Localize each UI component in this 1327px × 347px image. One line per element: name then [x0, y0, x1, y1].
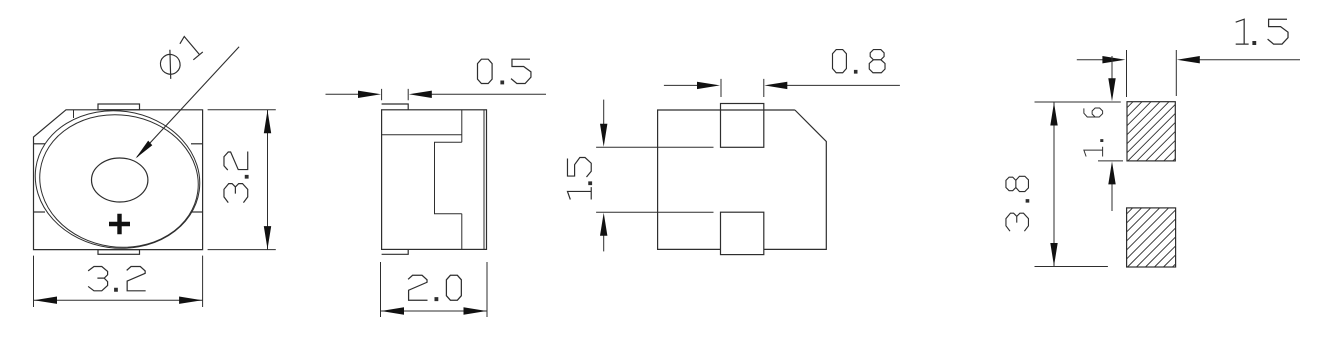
dim 1.5: upper line and arrow — [603, 100, 605, 128]
right pad tick upper — [191, 143, 203, 145]
left pad tick lower — [34, 211, 46, 213]
dim 3.8: extension bottom — [1035, 266, 1108, 268]
side body outline — [382, 110, 487, 250]
side inner vertical lower — [461, 214, 463, 250]
side inner right wall — [483, 110, 485, 250]
dim 1.6: pad bottom extension — [1098, 160, 1123, 162]
dim 3.2 vertical: extension bottom — [208, 249, 276, 251]
land pad top — [1127, 102, 1175, 161]
dim 3.2 vertical: dimension line — [267, 110, 269, 250]
land pad bottom hatch — [1127, 208, 1176, 267]
front body outline with corner chamfer — [658, 110, 827, 249]
bottom solder tab — [98, 250, 140, 255]
right pad tick lower — [191, 211, 203, 213]
side bottom tab — [382, 249, 409, 254]
dim 3.2 horizontal: arrow right — [179, 297, 202, 304]
dim 3.2 vertical: extension top — [208, 109, 276, 111]
top solder tab — [98, 104, 140, 110]
land pad bottom — [1127, 208, 1176, 267]
leader arrowhead — [136, 141, 153, 159]
dim 3.2 vertical: arrow down — [264, 226, 271, 249]
corner tick — [73, 110, 75, 118]
top view body outline with chamfer — [34, 110, 203, 250]
dim 0.8: left line and arrow — [664, 84, 701, 86]
sound hole circle — [92, 158, 148, 202]
side top band line — [382, 134, 462, 136]
dim 0.5: extension ticks — [382, 89, 409, 100]
dim 3.2 horizontal: arrow left — [34, 297, 57, 304]
dim text 0.8 — [833, 50, 886, 73]
dim 2.0: extension right — [486, 262, 488, 317]
dim 1.5: extension top — [596, 146, 713, 148]
dim text 1.6 rotated — [1084, 108, 1103, 157]
dim text 1.5 pad — [1236, 19, 1288, 44]
land pad top hatch — [1127, 102, 1175, 161]
dim 0.8: extension ticks — [721, 79, 764, 97]
dim 3.8: extension top — [1035, 101, 1121, 103]
dim 3.8: arrows — [1050, 103, 1057, 126]
dim 3.2 horizontal: extension right — [202, 256, 204, 307]
leader line for hole diameter — [137, 47, 239, 157]
dim text 3.8 rotated — [1006, 176, 1029, 231]
front bottom pad — [721, 212, 764, 254]
dim 1.5 pad: extension ticks — [1127, 50, 1177, 97]
front top pad — [721, 104, 764, 148]
outer rim ellipse — [26, 100, 208, 259]
dim 2.0: dimension line — [381, 310, 488, 312]
dim text 3.2 vertical rotated — [224, 152, 248, 203]
label dia 1 rotated — [155, 34, 203, 80]
dim 1.5 pad: left line and arrow — [1077, 59, 1106, 61]
dim 0.8: right line and arrow — [784, 84, 900, 86]
dim 2.0: extension left — [380, 262, 382, 317]
dim 3.2 horizontal: dimension line — [34, 299, 203, 301]
dim text 2.0 — [408, 275, 461, 300]
dim text 3.2 horizontal — [88, 266, 146, 291]
dim 1.6: upper line and arrow — [1111, 56, 1113, 82]
dim 1.5: extension bottom — [596, 211, 713, 213]
dim text 0.5 — [478, 59, 531, 84]
dim 0.5: left line and arrow — [326, 93, 363, 95]
side notch profile — [435, 142, 462, 214]
plus polarity mark — [109, 214, 130, 234]
dim 3.2 vertical: arrow up — [264, 110, 271, 133]
dim 0.5: right line and arrow — [429, 93, 547, 95]
dim 1.5 pad: right line and arrow — [1196, 59, 1300, 61]
dim 3.2 horizontal: extension left — [33, 256, 35, 307]
dim 1.5: lower line and arrow — [603, 233, 605, 252]
dim 3.8: dimension line — [1053, 102, 1055, 267]
inner rim ellipse — [31, 105, 207, 258]
dim 2.0: arrows — [381, 307, 404, 314]
left pad tick upper — [34, 143, 46, 145]
side top tab — [382, 104, 409, 110]
dim 1.6: lower line and arrow — [1111, 181, 1113, 212]
dim text 1.5 rotated — [567, 158, 591, 200]
side inner vertical upper — [461, 110, 463, 142]
